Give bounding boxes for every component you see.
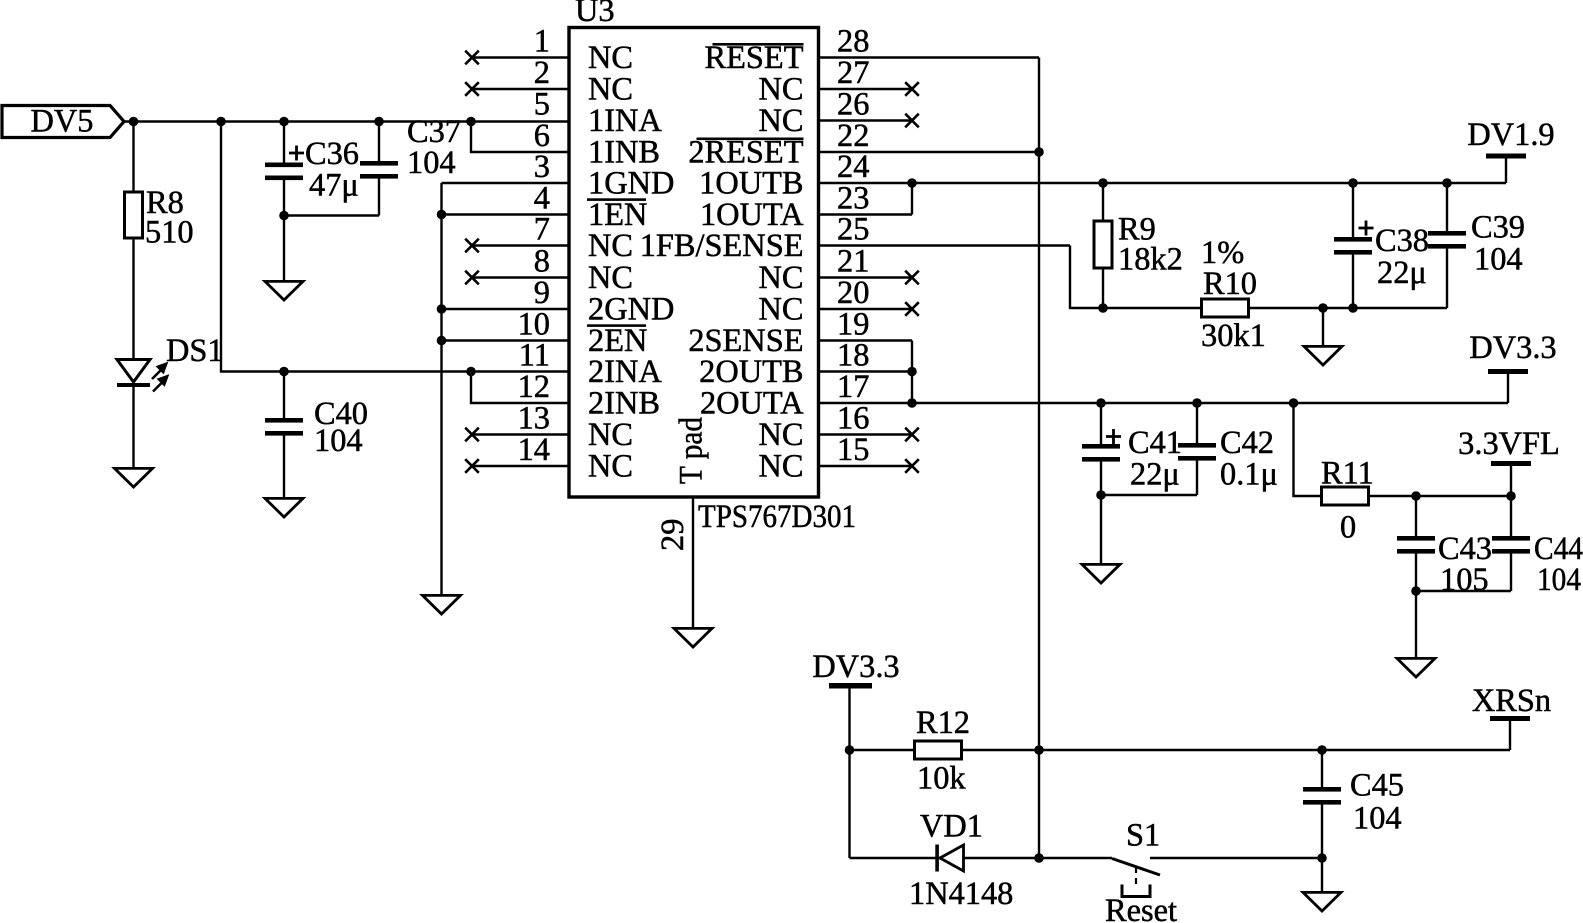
junction DV5/C37 [374,117,384,127]
power flag DV3.3 bottom [812,649,899,689]
wire rail to R9 [1102,183,1104,221]
svg-text:R12: R12 [916,705,970,741]
switch S1 [1105,818,1177,923]
junction pins 23/24 [907,178,917,188]
svg-text:NC: NC [588,449,633,485]
svg-text:TPS767D301: TPS767D301 [698,499,856,535]
LED DS1 [117,333,224,392]
svg-text:R11: R11 [1321,456,1374,492]
pin 28 (RESET) right lead [705,24,1039,77]
wire down to ground [1322,308,1324,346]
junction 2IN/pin12 stub [466,367,476,377]
wire C41 to bottom junction [1100,462,1102,496]
wire R12 to XRSn [962,749,1511,751]
svg-text:C39: C39 [1471,210,1525,246]
junction pins 19/18 [907,367,917,377]
junction reset/switch line [1034,853,1044,863]
power flag DV1.9 [1467,117,1554,159]
wire up to XRSn flag [1509,721,1511,750]
junction rail/R9 [1098,178,1108,188]
pin 3 (1GND) left lead [442,149,675,202]
capacitor C37 [360,114,461,181]
pin 26 (NC) right lead [759,87,919,140]
pin 24 (1OUTB) right lead [699,149,912,202]
power flag 3.3VFL [1458,426,1560,466]
svg-text:3.3VFL: 3.3VFL [1458,426,1560,462]
junction DV5/2IN branch [216,117,226,127]
svg-text:1FB/SENSE: 1FB/SENSE [640,228,804,264]
wire 3.3VFL flag down [1510,466,1512,496]
pin 7 (NC) left lead [465,212,633,265]
capacitor C36 [265,136,359,204]
wire C42 to bottom junction [1196,461,1198,496]
junction bus/pin 10 [437,336,447,346]
capacitor C38 [1334,221,1429,292]
capacitor C45 [1303,768,1404,837]
junction R12 rail/C45 [1317,745,1327,755]
svg-text:DV1.9: DV1.9 [1467,117,1554,153]
resistor R11 [1321,456,1374,546]
wire R10 to C39 bottom [1249,307,1448,309]
wire rail up to DV3.3 flag [1507,373,1509,403]
svg-text:T pad: T pad [674,417,710,484]
svg-text:22μ: 22μ [1130,457,1180,493]
svg-text:1N4148: 1N4148 [909,876,1013,912]
wire C37 to junction [378,179,380,216]
power flag DV3.3 [1469,330,1556,374]
junction reset/R12 rail [1034,745,1044,755]
junction C36/C37 bottoms [279,211,289,221]
svg-text:0.1μ: 0.1μ [1220,457,1278,493]
svg-text:18k2: 18k2 [1118,242,1183,278]
pin 23 (1OUTA) right lead [700,181,912,234]
resistor R10 [1201,235,1266,354]
capacitor C39 [1428,210,1525,278]
diode VD1 1N4148 [909,809,1013,913]
svg-text:104: 104 [1474,242,1523,278]
wire stub to pin 6 [471,122,569,153]
pin 9 (2GND) left lead [442,275,675,328]
wire rail to C41 [1100,403,1102,444]
svg-text:XRSn: XRSn [1472,683,1551,719]
ground below C36 [265,281,303,300]
net label DV5 [2,104,124,140]
wire C43 to bottom junction [1415,554,1417,592]
wire rail to C42 [1196,403,1198,443]
wire DV3.3 flag down to diode line [848,688,850,858]
svg-text:Reset: Reset [1105,893,1177,923]
wire junction to C42 bottom [1101,494,1197,496]
ground below R10 rail [1304,346,1342,365]
junction rail/C42 [1192,398,1202,408]
svg-text:104: 104 [1353,801,1402,837]
capacitor C42 [1178,425,1278,493]
pin 12 (2INB) left lead [518,369,660,422]
svg-text:104: 104 [1537,562,1581,598]
wire R8 to DS1 [132,238,134,358]
wire R11 to 3.3VFL node [1369,495,1512,497]
svg-text:DS1: DS1 [166,333,224,369]
junction C45/switch/ground [1317,853,1327,863]
pin 20 (NC) right lead [759,275,919,328]
pin 15 (NC) right lead [759,432,919,485]
svg-text:25: 25 [837,212,869,248]
junction DV3.3/R12 rail [845,745,855,755]
wire junction to ground [283,216,285,282]
junction R10 rail/ground [1318,303,1328,313]
svg-text:104: 104 [407,145,456,181]
wire node to C44 [1510,496,1512,536]
junction R10 rail/C38 bottom [1348,303,1358,313]
wire 2OUT rail [912,402,1508,404]
svg-text:7: 7 [534,212,550,248]
pin 1 (NC) left lead [465,24,633,77]
wire pin 23 up to pin 24 line [911,183,913,215]
pin 5 (1INA) left lead [534,87,663,140]
wire C40 to ground [283,436,285,499]
wire DV5 to R8 [132,122,134,193]
ground below C41 [1082,564,1120,583]
wire DV5 down to 2IN rail [221,122,471,372]
svg-text:NC: NC [759,449,804,485]
wire C45 to switch line [1321,805,1323,859]
capacitor C40 [265,396,368,459]
svg-text:DV3.3: DV3.3 [812,649,899,685]
resistor R9 [1094,212,1183,278]
svg-text:0: 0 [1340,510,1356,546]
junction rail/C39 [1442,178,1452,188]
wire pin 25 FB down [1070,246,1201,309]
svg-text:C38: C38 [1375,223,1429,259]
wire pin 19 down to 2OUT rail [911,341,913,404]
ground below bus [423,595,461,614]
svg-text:47μ: 47μ [309,168,359,204]
junction DV5/pin6 stub [466,117,476,127]
svg-text:10k: 10k [917,761,966,797]
junction rail/C38 [1348,178,1358,188]
junction bus/pin 4 [437,210,447,220]
IC U3 TPS767D301 body [569,28,819,498]
junction rail/R11 branch [1289,398,1299,408]
svg-text:DV5: DV5 [31,104,94,140]
junction C43/C44 bottoms [1411,586,1421,596]
wire rail to C39 [1446,183,1448,231]
capacitor C44 [1492,531,1583,598]
pin 6 (1INB) left lead [534,118,660,171]
wire DV3.3 to R12 [850,749,915,751]
resistor R8 [125,185,194,251]
pin 25 (1FB/SENSE) right lead [640,212,1070,265]
wire DV5 to C36 [283,122,285,163]
wire 1OUT rail [912,182,1506,184]
svg-text:C45: C45 [1350,768,1404,804]
wire junction to ground [1100,495,1102,564]
svg-text:R10: R10 [1203,266,1257,302]
wire DS1 to ground [132,387,134,468]
junction reset/pin 22 [1034,147,1044,157]
svg-text:DV3.3: DV3.3 [1469,330,1556,366]
wire C38 to bottom rail [1352,255,1354,309]
junction DV5/C36 [279,117,289,127]
svg-text:15: 15 [837,432,869,468]
resistor R12 [915,705,971,797]
ground at pin 29 [674,628,712,647]
wire junction to C37 bottom [284,214,379,216]
svg-text:104: 104 [314,423,363,459]
pin 18 (2OUTB) right lead [699,338,912,391]
pin 2 (NC) left lead [465,55,633,108]
svg-text:U3: U3 [575,0,615,29]
svg-text:14: 14 [518,432,550,468]
svg-text:VD1: VD1 [920,809,983,845]
pin 19 (2SENSE) right lead [688,307,912,360]
pin 16 (NC) right lead [759,401,919,454]
wire rail to C38 [1352,183,1354,237]
wire node to C43 [1415,496,1417,536]
junction bus/pin 9 [437,304,447,314]
pin 17 (2OUTA) right lead [700,369,912,422]
wire C39 to bottom rail [1446,249,1448,309]
junction pins 18/17 [907,398,917,408]
pin 29 thermal pad lead [655,417,710,627]
wire C44 to bottom junction [1510,554,1512,592]
overline bar between 1GND and 1EN [587,198,646,201]
svg-text:NC: NC [588,228,633,264]
wire junction to ground [1415,591,1417,658]
pin 10 (2EN) left lead [442,307,648,360]
svg-text:S1: S1 [1126,818,1160,854]
overline bar between 2GND and 2EN [587,324,646,327]
wire to ground [1321,858,1323,892]
wire switch to C45 bottom [1150,857,1322,859]
ground below DS1 [115,468,153,487]
junction 2IN/C40 [279,367,289,377]
wire DV5 to C37 [378,122,380,162]
junction R11/C43 [1411,491,1421,501]
wire junction to C44 bottom [1416,590,1511,592]
svg-text:510: 510 [145,215,194,251]
junction rail/C41 [1096,398,1106,408]
svg-text:105: 105 [1440,562,1489,598]
wire reset net vertical [1038,58,1040,859]
wire diode line [850,857,1113,859]
wire ground bus from pin 3 [440,183,442,596]
junction C41/C42 bottoms [1096,490,1106,500]
power flag XRSn [1472,683,1551,721]
capacitor C43 [1397,531,1492,598]
wire rail to DV1.9 flag [1505,157,1507,183]
ground below C43 [1397,658,1435,677]
wire 2OUT rail down to R11 [1294,403,1322,496]
wire 2IN rail to pin 11 [471,370,569,372]
pin 8 (NC) left lead [465,244,633,297]
wire R9 to FB rail [1102,268,1104,308]
pin 13 (NC) left lead [465,401,633,454]
svg-text:30k1: 30k1 [1201,318,1266,354]
ground below C40 [265,498,303,517]
pin 22 (2RESET) right lead [688,118,1039,171]
pin 4 (1EN) left lead [442,181,648,234]
junction R9/FB rail [1098,303,1108,313]
wire 2IN rail to C40 [283,372,285,419]
pin 27 (NC) right lead [759,55,919,108]
pin 11 (2INA) left lead [519,338,663,391]
ground below C45 [1303,892,1341,911]
capacitor C41 [1082,425,1182,493]
junction R11/C44/3.3VFL [1506,491,1516,501]
wire DV5 rail to pin 5 [124,120,569,122]
wire stub to pin 12 [471,372,569,404]
svg-text:29: 29 [655,519,691,551]
wire R12 rail to C45 [1321,750,1323,787]
wire C36 to junction [283,180,285,216]
junction DV5/R8 [129,117,139,127]
pin 21 (NC) right lead [759,244,919,297]
svg-text:22μ: 22μ [1377,255,1427,291]
pin 14 (NC) left lead [465,432,633,485]
